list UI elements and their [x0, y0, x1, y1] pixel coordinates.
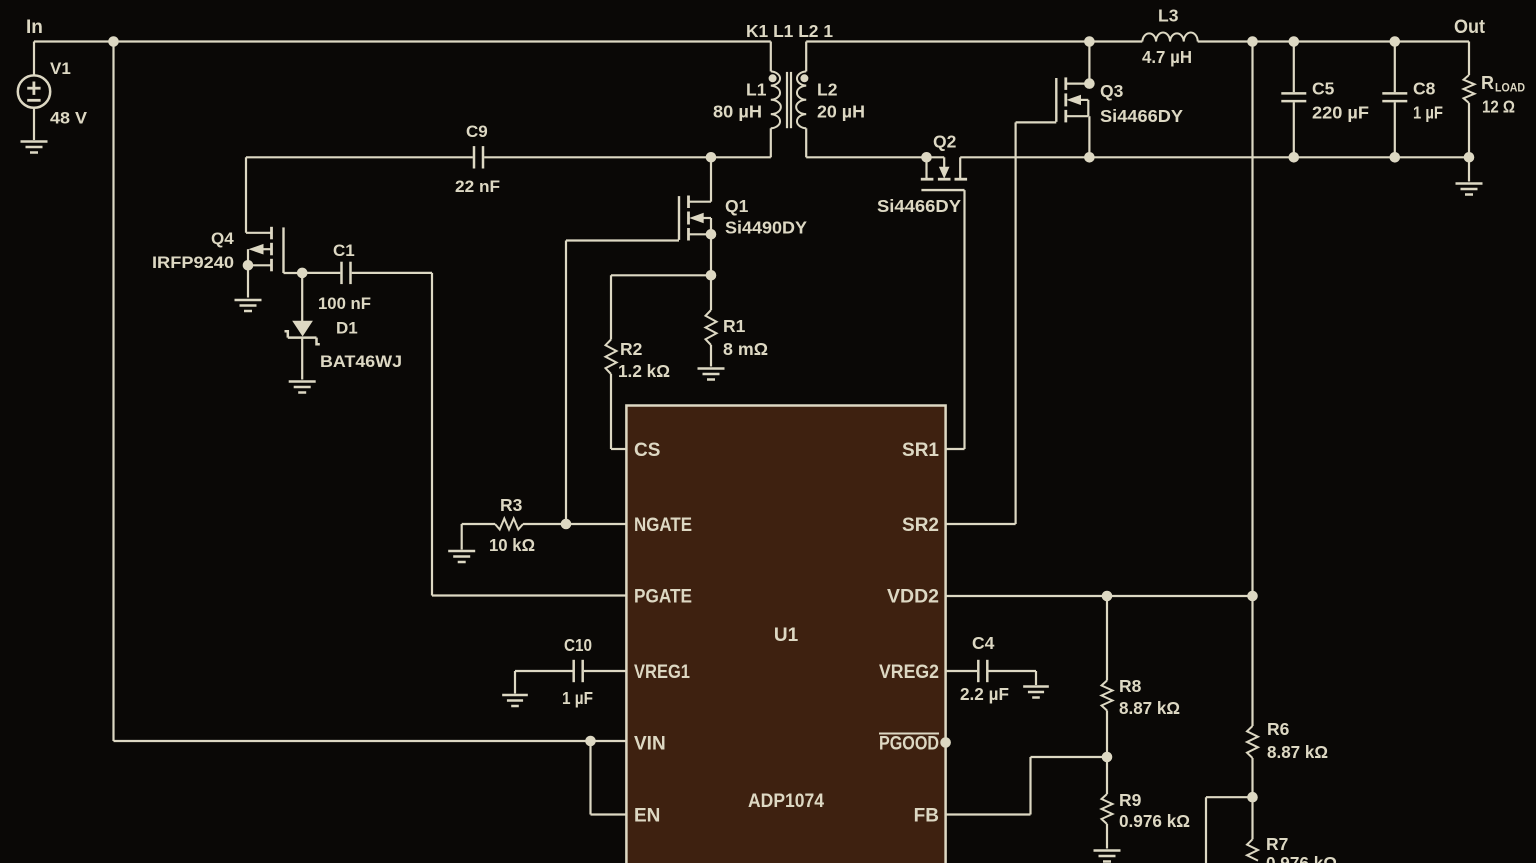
- svg-text:Q4: Q4: [211, 229, 234, 248]
- svg-text:Si4466DY: Si4466DY: [877, 196, 961, 216]
- svg-text:Q1: Q1: [725, 196, 749, 216]
- svg-text:C10: C10: [564, 635, 592, 655]
- svg-text:PGOOD: PGOOD: [879, 734, 939, 755]
- svg-text:CS: CS: [634, 440, 660, 461]
- svg-text:EN: EN: [634, 806, 660, 827]
- svg-text:VIN: VIN: [634, 734, 666, 755]
- svg-text:L3: L3: [1158, 6, 1179, 26]
- svg-text:8 mΩ: 8 mΩ: [723, 339, 768, 359]
- svg-text:4.7 µH: 4.7 µH: [1142, 47, 1192, 67]
- svg-text:Q3: Q3: [1100, 81, 1124, 101]
- svg-text:FB: FB: [914, 806, 939, 827]
- svg-text:VREG1: VREG1: [634, 662, 690, 683]
- svg-text:8.87 kΩ: 8.87 kΩ: [1119, 698, 1180, 718]
- svg-text:U1: U1: [774, 625, 799, 646]
- svg-text:VREG2: VREG2: [879, 662, 939, 683]
- svg-text:SR1: SR1: [902, 440, 939, 461]
- svg-text:L1: L1: [746, 80, 767, 100]
- svg-text:PGATE: PGATE: [634, 587, 692, 608]
- svg-text:SR2: SR2: [902, 515, 939, 536]
- svg-text:C1: C1: [333, 241, 355, 260]
- svg-text:C9: C9: [466, 122, 488, 141]
- svg-text:Si4490DY: Si4490DY: [725, 218, 807, 238]
- svg-text:1.2 kΩ: 1.2 kΩ: [618, 361, 670, 381]
- svg-text:R7: R7: [1266, 834, 1288, 854]
- svg-text:Q2: Q2: [933, 132, 957, 152]
- svg-text:R2: R2: [620, 339, 643, 359]
- svg-text:12 Ω: 12 Ω: [1482, 97, 1515, 117]
- svg-text:22 nF: 22 nF: [455, 177, 500, 196]
- svg-text:C8: C8: [1413, 79, 1436, 99]
- svg-text:R1: R1: [723, 316, 746, 336]
- svg-text:IRFP9240: IRFP9240: [152, 253, 234, 272]
- svg-text:R8: R8: [1119, 676, 1142, 696]
- svg-text:1 µF: 1 µF: [1413, 103, 1443, 123]
- svg-text:8.87 kΩ: 8.87 kΩ: [1267, 742, 1328, 762]
- svg-text:ADP1074: ADP1074: [748, 791, 824, 812]
- svg-text:C5: C5: [1312, 79, 1335, 99]
- svg-text:BAT46WJ: BAT46WJ: [320, 352, 402, 371]
- svg-text:0.976 kΩ: 0.976 kΩ: [1266, 853, 1337, 863]
- svg-text:48 V: 48 V: [50, 109, 88, 128]
- svg-text:C4: C4: [972, 633, 995, 653]
- svg-text:80 µH: 80 µH: [713, 102, 762, 122]
- svg-text:R3: R3: [500, 495, 523, 515]
- svg-text:20 µH: 20 µH: [817, 102, 865, 122]
- svg-text:VDD2: VDD2: [887, 587, 939, 608]
- svg-text:Out: Out: [1454, 17, 1486, 38]
- svg-text:220 µF: 220 µF: [1312, 103, 1369, 123]
- svg-text:1 µF: 1 µF: [562, 688, 593, 708]
- svg-text:L2: L2: [817, 80, 838, 100]
- svg-text:K1 L1 L2 1: K1 L1 L2 1: [746, 21, 833, 41]
- svg-text:0.976 kΩ: 0.976 kΩ: [1119, 811, 1190, 831]
- svg-text:NGATE: NGATE: [634, 515, 692, 536]
- svg-text:2.2 µF: 2.2 µF: [960, 684, 1009, 704]
- svg-text:R9: R9: [1119, 790, 1142, 810]
- svg-text:In: In: [26, 17, 43, 38]
- svg-text:R: R: [1481, 73, 1494, 93]
- svg-text:D1: D1: [336, 319, 358, 338]
- svg-text:R6: R6: [1267, 719, 1290, 739]
- svg-text:10 kΩ: 10 kΩ: [489, 535, 535, 555]
- svg-text:LOAD: LOAD: [1495, 81, 1525, 95]
- svg-text:100 nF: 100 nF: [318, 294, 371, 313]
- svg-text:V1: V1: [50, 59, 71, 78]
- svg-text:Si4466DY: Si4466DY: [1100, 106, 1183, 126]
